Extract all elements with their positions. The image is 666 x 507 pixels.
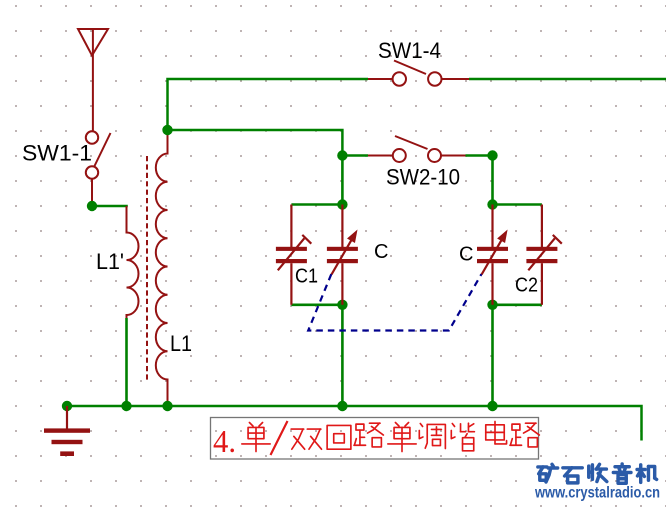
mechanical gang link (dashed) between C and C — [308, 274, 481, 330]
svg-text:L1: L1 — [170, 331, 192, 356]
capacitor C (left tuning gang) — [327, 205, 358, 305]
svg-text:SW1-4: SW1-4 — [378, 38, 441, 63]
wire into SW2-10 left — [342, 154, 368, 157]
node L1 top junction — [162, 125, 172, 135]
wire L1prime bottom to ground rail — [125, 318, 128, 406]
svg-text:SW2-10: SW2-10 — [386, 165, 460, 190]
wire C/C2 bottom node to ground rail — [491, 305, 494, 406]
switch SW1-1 — [86, 131, 111, 206]
inductor L1 secondary winding — [156, 130, 168, 406]
svg-text:C: C — [459, 244, 473, 266]
node junction antenna-L1prime — [87, 201, 97, 211]
inductor L1' primary winding — [127, 206, 139, 319]
title box frame — [211, 418, 539, 460]
svg-text:C1: C1 — [295, 266, 318, 288]
node C/C2 top junction — [487, 199, 497, 209]
svg-text:SW1-1: SW1-1 — [22, 141, 92, 166]
wire L1 top to SW1-4 (top rail) — [168, 79, 369, 130]
node rail-ground junction — [62, 401, 72, 411]
svg-text:C2: C2 — [515, 275, 538, 297]
node rail-L1prime junction — [121, 401, 131, 411]
node C/C2 bottom junction — [487, 300, 497, 310]
node C/C1 top junction — [337, 199, 347, 209]
node rail-C/C2 junction — [487, 401, 497, 411]
transformer core (dashed) — [146, 156, 148, 382]
antenna ANT1 — [78, 29, 108, 131]
capacitor C (right tuning gang) — [477, 205, 508, 305]
wire C/C1 bottom node to ground rail — [341, 305, 344, 406]
ground symbol — [44, 406, 90, 456]
switch SW2-10 — [368, 136, 466, 162]
wire C/C1 bottom node to C1 branch — [291, 303, 342, 306]
wire SW2-10 left junction down to C top node — [341, 156, 344, 205]
node rail-C/C1 junction — [337, 401, 347, 411]
capacitor C2 (trimmer) — [526, 205, 561, 305]
node rail-L1 junction — [162, 401, 172, 411]
node C/C1 bottom junction — [337, 300, 347, 310]
svg-text:4.: 4. — [213, 423, 236, 459]
node SW2-10 left junction — [337, 150, 347, 160]
wire antenna junction to L1prime top — [92, 205, 128, 208]
svg-text:www.crystalradio.cn: www.crystalradio.cn — [534, 485, 660, 502]
node SW2-10 right junction — [487, 150, 497, 160]
wire ground rail — [67, 406, 642, 441]
wire C/C2 top node to C2 branch — [493, 203, 542, 206]
logo 矿石收音机 — [538, 464, 657, 483]
wire C/C1 top node to C1 branch — [291, 203, 342, 206]
wire L1 top junction to SW2-10 branch — [168, 130, 343, 156]
wire SW2-10 right to junction — [466, 154, 493, 157]
capacitor C1 (trimmer) — [276, 205, 311, 305]
title text 4.单/双回路单调谐电路 — [213, 421, 539, 459]
wire SW2-10 right junction down to right C top node — [491, 156, 494, 205]
wire C/C2 bottom node to C2 branch — [493, 303, 542, 306]
switch SW1-4 — [368, 61, 469, 86]
wire SW1-4 to right edge — [469, 78, 666, 81]
svg-text:C: C — [374, 241, 388, 263]
svg-text:L1': L1' — [96, 249, 124, 274]
